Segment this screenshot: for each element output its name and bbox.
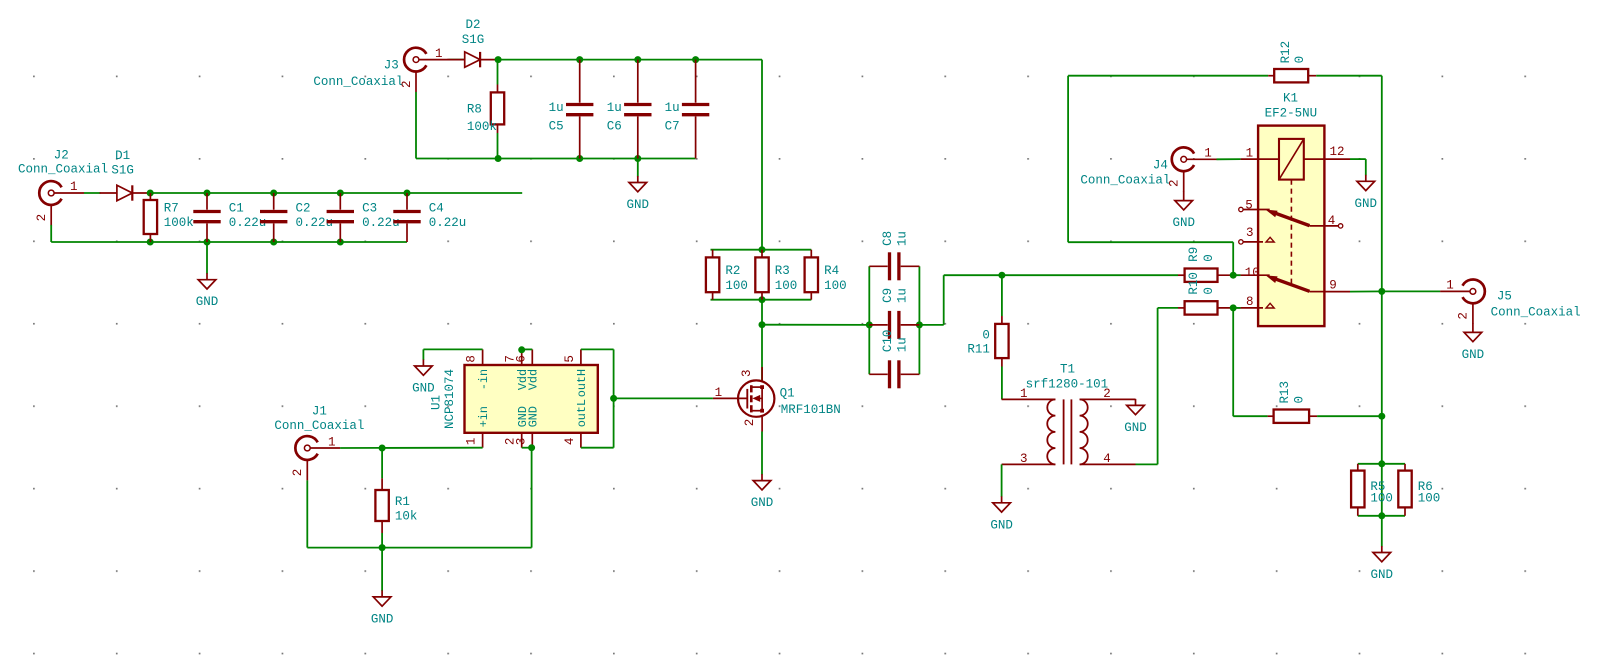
junction (634, 155, 641, 162)
wire (1233, 415, 1267, 417)
svg-text:C3: C3 (362, 201, 377, 215)
wire pins 2-3 bridge (522, 447, 533, 449)
wire R5R6 bottom (1358, 515, 1405, 517)
capacitor C6 1u (607, 60, 652, 159)
wire bottom rail 2 (416, 158, 696, 160)
svg-text:Conn_Coaxial: Conn_Coaxial (18, 162, 108, 176)
junction (337, 190, 344, 197)
wire T1 pin3 down (1001, 464, 1003, 496)
wire cap bank right rail (918, 266, 920, 374)
junction (916, 321, 923, 328)
svg-text:Conn_Coaxial: Conn_Coaxial (1491, 306, 1581, 320)
ground at J4 (1172, 191, 1195, 230)
relay K1 EF2-5NU (1239, 91, 1350, 326)
wire to ground (637, 159, 639, 177)
resistor R4 100 (805, 250, 847, 300)
transformer T1 srf1280-101 (1002, 363, 1136, 466)
wire pin8 node down (1232, 308, 1234, 416)
svg-text:100k: 100k (467, 120, 497, 134)
junction (404, 190, 411, 197)
svg-text:0: 0 (1293, 396, 1307, 404)
junction (1230, 304, 1237, 311)
svg-text:3: 3 (1020, 452, 1028, 466)
wire pin12 to ground (1350, 158, 1366, 160)
resistor R12 0 (1268, 41, 1316, 83)
svg-text:8: 8 (1246, 295, 1254, 309)
junction (379, 445, 386, 452)
svg-text:R9: R9 (1187, 247, 1201, 262)
junction (866, 321, 873, 328)
wire bottom rail (51, 241, 407, 243)
junction (1378, 288, 1385, 295)
wire pin8 to ground (423, 348, 482, 350)
svg-text:1u: 1u (895, 288, 909, 303)
svg-text:3: 3 (740, 370, 754, 378)
ground (371, 590, 394, 626)
wire (422, 349, 424, 360)
wire (84, 192, 101, 194)
wire to ground (206, 242, 208, 274)
wire net IN1 top rail (150, 192, 522, 194)
svg-text:GND: GND (1355, 197, 1378, 211)
svg-text:Conn_Coaxial: Conn_Coaxial (313, 75, 403, 89)
wire to R12 (1068, 75, 1268, 77)
wire GND pins down (531, 448, 533, 548)
svg-text:1u: 1u (895, 337, 909, 352)
wire J3 pin2 down (415, 92, 417, 159)
connector J3 Conn_Coaxial (313, 47, 448, 92)
svg-text:D2: D2 (465, 18, 480, 32)
svg-text:R2: R2 (725, 264, 740, 278)
capacitor C3 0.22u (327, 193, 400, 242)
svg-text:GND: GND (1371, 568, 1394, 582)
wire Q1 source to ground (761, 432, 763, 475)
svg-text:C8: C8 (881, 231, 895, 246)
wire to ground (1381, 516, 1383, 547)
svg-text:1: 1 (70, 180, 78, 194)
wire loop horizontal (1068, 241, 1233, 243)
svg-text:0.22u: 0.22u (429, 216, 467, 230)
svg-text:3: 3 (1246, 226, 1254, 240)
svg-text:J5: J5 (1497, 290, 1512, 304)
svg-text:S1G: S1G (111, 164, 134, 178)
svg-text:S1G: S1G (462, 33, 485, 47)
wire right bus upper (1381, 76, 1383, 292)
svg-text:C6: C6 (607, 120, 622, 134)
ground (1355, 175, 1378, 211)
svg-text:R3: R3 (775, 264, 790, 278)
wire R13 to bus (1317, 415, 1382, 417)
svg-text:GND: GND (990, 518, 1013, 532)
wire (1233, 274, 1240, 276)
svg-text:Vdd: Vdd (527, 369, 541, 390)
wire R8 top (497, 60, 499, 85)
wire to R9 (944, 274, 1178, 276)
junction (495, 155, 502, 162)
capacitor C9 1u (869, 288, 919, 339)
svg-text:1: 1 (1446, 279, 1454, 293)
ground (196, 273, 219, 309)
wire to Q1 gate (614, 397, 713, 399)
wire bottom return (307, 547, 531, 549)
junction (610, 395, 617, 402)
svg-text:2: 2 (1168, 179, 1182, 187)
ground (751, 474, 774, 510)
svg-text:GND: GND (412, 382, 435, 396)
wire to C9 (762, 324, 869, 326)
svg-text:1: 1 (715, 386, 723, 400)
svg-text:J4: J4 (1153, 158, 1168, 172)
svg-text:MRF101BN: MRF101BN (781, 403, 841, 417)
op-amp U1 NCP81074 (430, 349, 598, 447)
diode D1 S1G (100, 149, 151, 201)
junction (495, 56, 502, 63)
wire to R11 (1001, 275, 1003, 316)
svg-text:C1: C1 (229, 201, 244, 215)
svg-text:outL: outL (575, 399, 589, 427)
svg-text:4: 4 (1103, 452, 1111, 466)
diode D2 S1G (447, 18, 498, 67)
resistor R3 100 (755, 250, 797, 300)
junction (379, 544, 386, 551)
connector J1 Conn_Coaxial (274, 405, 364, 481)
junction (998, 272, 1005, 279)
capacitor C4 0.22u (393, 193, 466, 242)
svg-text:4: 4 (1328, 214, 1336, 228)
svg-text:GND: GND (751, 496, 774, 510)
wire R2R3R4 bottom (711, 299, 812, 301)
connector J5 Conn_Coaxial (1440, 279, 1581, 324)
wire (919, 324, 943, 326)
resistor R7 100k (144, 193, 194, 242)
wire R2R3R4 top (711, 249, 812, 251)
junction (204, 190, 211, 197)
svg-text:12: 12 (1330, 145, 1345, 159)
svg-text:2: 2 (291, 469, 305, 477)
svg-text:10k: 10k (395, 510, 418, 524)
wire outH-outL tie (613, 349, 615, 447)
junction (692, 56, 699, 63)
svg-text:C4: C4 (429, 201, 444, 215)
resistor R6 100 (1398, 464, 1440, 516)
junction (759, 321, 766, 328)
svg-text:5: 5 (563, 355, 577, 363)
ground (1371, 546, 1394, 582)
svg-text:R1: R1 (395, 495, 410, 509)
svg-text:Q1: Q1 (780, 386, 795, 400)
svg-text:C5: C5 (549, 120, 564, 134)
wire pin5 over (581, 348, 614, 350)
wire J2 pin2 down (50, 225, 52, 242)
svg-text:0: 0 (982, 328, 990, 342)
resistor R10 0 (1178, 272, 1241, 315)
capacitor C5 1u (549, 60, 594, 159)
wire to R10 (1158, 307, 1178, 309)
svg-text:10: 10 (1245, 266, 1260, 280)
wire R1 bottom (381, 533, 383, 548)
connector J2 Conn_Coaxial (18, 149, 108, 226)
svg-text:GND: GND (527, 406, 541, 427)
resistor R5 100 (1351, 464, 1393, 516)
junction (634, 56, 641, 63)
svg-text:1: 1 (1246, 147, 1254, 161)
wire J4 to K1 (1217, 158, 1241, 160)
transistor Q1 MRF101BN (713, 367, 841, 432)
capacitor C1 0.22u (193, 193, 266, 242)
ground at T1 pin2 (1124, 399, 1147, 435)
wire loop drop (1232, 242, 1234, 275)
wire R11 to T1 (1001, 367, 1003, 400)
svg-text:J2: J2 (54, 149, 69, 163)
wire R5R6 top (1358, 463, 1405, 465)
resistor R13 0 (1268, 381, 1318, 423)
svg-text:1: 1 (435, 47, 443, 61)
junction (1230, 272, 1237, 279)
svg-text:R7: R7 (164, 201, 179, 215)
capacitor C8 1u (869, 231, 919, 280)
junction (270, 190, 277, 197)
ground (627, 176, 650, 212)
svg-text:-in: -in (477, 369, 491, 390)
svg-text:D1: D1 (115, 149, 130, 163)
svg-text:100k: 100k (164, 216, 194, 230)
svg-text:K1: K1 (1283, 91, 1298, 105)
svg-text:srf1280-101: srf1280-101 (1026, 377, 1109, 391)
svg-text:R12: R12 (1279, 41, 1293, 64)
svg-text:GND: GND (1172, 216, 1195, 230)
junction (147, 190, 154, 197)
svg-text:U1: U1 (430, 395, 444, 410)
svg-text:C2: C2 (296, 201, 311, 215)
svg-text:GND: GND (371, 612, 394, 626)
wire J1 pin2 down (306, 480, 308, 547)
junction (759, 296, 766, 303)
svg-text:C10: C10 (881, 330, 895, 353)
junction (528, 444, 535, 451)
wire (1365, 159, 1367, 175)
svg-text:100: 100 (1418, 491, 1441, 505)
svg-text:1: 1 (465, 438, 479, 446)
svg-text:100: 100 (725, 279, 748, 293)
wire R12 to bus (1316, 75, 1382, 77)
wire right bus lower (1381, 291, 1383, 515)
svg-text:GND: GND (196, 295, 219, 309)
svg-text:1u: 1u (895, 231, 909, 246)
junction (147, 239, 154, 246)
svg-text:EF2-5NU: EF2-5NU (1265, 107, 1318, 121)
svg-text:R4: R4 (824, 264, 839, 278)
svg-text:T1: T1 (1060, 363, 1075, 377)
svg-text:1: 1 (328, 435, 336, 449)
resistor R1 10k (375, 478, 417, 533)
resistor R8 100k (467, 85, 504, 134)
svg-text:+in: +in (477, 406, 491, 427)
svg-text:J1: J1 (312, 405, 327, 419)
svg-text:C7: C7 (665, 120, 680, 134)
svg-text:R10: R10 (1187, 272, 1201, 295)
svg-text:C9: C9 (881, 288, 895, 303)
svg-text:0: 0 (1293, 56, 1307, 64)
svg-text:Conn_Coaxial: Conn_Coaxial (1080, 174, 1170, 188)
svg-text:9: 9 (1329, 279, 1337, 293)
svg-text:2: 2 (1456, 312, 1470, 320)
wire pin4 over (581, 447, 614, 449)
svg-text:1: 1 (1020, 387, 1028, 401)
svg-text:3: 3 (514, 438, 528, 446)
svg-text:1: 1 (1204, 146, 1212, 160)
svg-text:outH: outH (575, 369, 589, 397)
svg-text:6: 6 (514, 355, 528, 363)
svg-text:0: 0 (1202, 254, 1216, 262)
connector J4 Conn_Coaxial (1080, 146, 1216, 191)
svg-text:100: 100 (824, 279, 847, 293)
svg-text:100: 100 (775, 279, 798, 293)
wire (1233, 307, 1240, 309)
svg-text:R13: R13 (1278, 381, 1292, 404)
svg-text:2: 2 (35, 214, 49, 222)
capacitor C10 1u (869, 330, 919, 389)
junction (1378, 460, 1385, 467)
wire pins 7-6 bridge (522, 348, 533, 350)
wire cap bank left rail (868, 266, 870, 374)
junction (759, 246, 766, 253)
resistor R2 100 (706, 250, 748, 300)
wire riser to R10 (1157, 308, 1159, 465)
svg-text:R8: R8 (467, 103, 482, 117)
resistor R11 0 (967, 316, 1008, 367)
svg-text:8: 8 (465, 355, 479, 363)
junction (1378, 512, 1385, 519)
wire to R1 (381, 448, 383, 478)
wire top rail 2 (498, 59, 762, 61)
wire (449, 59, 465, 61)
svg-text:J3: J3 (384, 58, 399, 72)
wire loop left riser (1067, 76, 1069, 243)
svg-text:1u: 1u (607, 101, 622, 115)
svg-text:1u: 1u (665, 101, 680, 115)
ground at J5 (1462, 323, 1485, 362)
svg-text:GND: GND (627, 198, 650, 212)
svg-text:0: 0 (1202, 287, 1216, 295)
svg-text:GND: GND (1124, 421, 1147, 435)
junction (576, 155, 583, 162)
wire T1 pin4 out (1136, 463, 1158, 465)
wire drain feed down (761, 60, 763, 250)
svg-text:2: 2 (400, 80, 414, 88)
svg-text:5: 5 (1245, 199, 1253, 213)
svg-text:1u: 1u (549, 101, 564, 115)
svg-text:R11: R11 (967, 342, 990, 356)
junction (576, 56, 583, 63)
svg-text:GND: GND (1462, 348, 1485, 362)
svg-text:Conn_Coaxial: Conn_Coaxial (274, 419, 364, 433)
wire to J5 (1382, 290, 1440, 292)
junction (337, 239, 344, 246)
wire to ground (381, 548, 383, 591)
resistor R9 0 (1178, 247, 1241, 282)
capacitor C2 0.22u (260, 193, 333, 242)
capacitor C7 1u (665, 60, 710, 159)
ground (412, 360, 435, 396)
junction (270, 239, 277, 246)
wire R8 bottom (497, 133, 499, 159)
wire J1 to +in (340, 447, 483, 449)
svg-text:100: 100 (1370, 491, 1393, 505)
ground (990, 496, 1013, 532)
svg-text:2: 2 (743, 419, 757, 427)
junction (1378, 413, 1385, 420)
svg-text:NCP81074: NCP81074 (443, 369, 457, 429)
svg-text:4: 4 (563, 438, 577, 446)
wire to Q1 drain (761, 300, 763, 381)
junction (518, 346, 525, 353)
junction (204, 239, 211, 246)
svg-text:2: 2 (1103, 387, 1111, 401)
wire riser (943, 275, 945, 325)
wire pin9 out (1350, 290, 1382, 292)
